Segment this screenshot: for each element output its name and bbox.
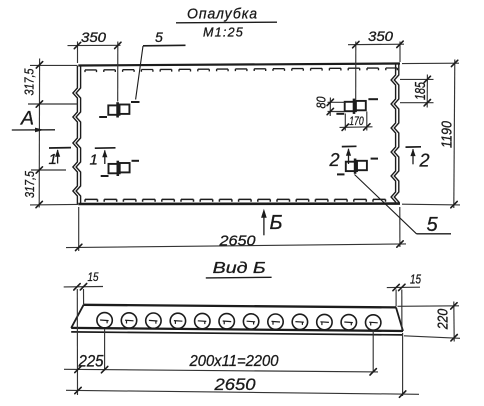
beam bottom lip (71, 332, 403, 335)
dim 80 ext lines (328, 102, 345, 111)
svg-text:80: 80 (314, 96, 329, 109)
svg-text:185: 185 (413, 81, 429, 100)
item row2 left dashes (101, 161, 139, 176)
dim 15 right line (387, 286, 420, 288)
svg-text:5: 5 (427, 214, 439, 236)
svg-text:Вид Б: Вид Б (213, 260, 266, 277)
dim 225 ticks (75, 366, 377, 375)
label 5 top (155, 29, 163, 45)
dim 80 text (314, 96, 329, 109)
dim 15 left ext (77, 289, 83, 395)
dim 15 right ext (396, 290, 403, 397)
embedded item row1 left (108, 102, 129, 117)
plan bottom joint dashes (85, 199, 386, 201)
svg-text:350: 350 (368, 29, 394, 44)
dim 317,5 upper text (22, 68, 37, 96)
section mark 2 left (329, 146, 357, 170)
svg-text:А: А (20, 107, 34, 129)
dim 350 left ticks (74, 42, 121, 49)
beam top edge (84, 305, 396, 308)
dim 317,5 ticks (36, 62, 43, 208)
title Opalubka (187, 6, 258, 23)
dim 200x11 text (189, 353, 279, 370)
scale M1:25 (203, 26, 244, 40)
dim 170 ext lines (345, 112, 367, 131)
dim 220 ext lines (398, 306, 461, 339)
svg-text:2: 2 (329, 150, 340, 170)
svg-text:225: 225 (78, 352, 105, 370)
dim 2650 plan line (66, 244, 406, 248)
dim 317,5 lower text (22, 170, 37, 198)
dim 350 left ext lines (78, 42, 118, 102)
dim 350 right line (348, 43, 404, 46)
dim 2650 plan ticks (76, 241, 404, 251)
dim 220 text (436, 309, 452, 330)
dim 185 ext lines (400, 79, 434, 102)
label 5 top underline (143, 44, 186, 47)
label 5 bottom leader (355, 175, 417, 234)
title Vid B underline (206, 276, 272, 279)
item row2 right dashes (337, 159, 378, 175)
dim 185 line (426, 75, 428, 108)
dim 185 text (413, 81, 429, 100)
dim 15 right text (410, 273, 421, 287)
dim 2650 bottom ticks (75, 387, 406, 397)
dim 170 text (349, 114, 364, 128)
label 5 bottom text (427, 214, 439, 236)
plan top joint dashes (85, 68, 397, 72)
dim 350 left text (81, 30, 107, 45)
beam hole marks (100, 320, 378, 326)
dim 220 ticks (451, 303, 458, 341)
dim 225 ext lines (105, 329, 374, 373)
dim 170 line (340, 126, 373, 129)
svg-text:1: 1 (49, 151, 57, 168)
dim 220 line (453, 302, 455, 342)
dim 2650 bottom line (66, 390, 419, 394)
svg-text:220: 220 (436, 309, 452, 330)
dim 15 left ticks (74, 284, 87, 291)
svg-text:350: 350 (81, 30, 107, 45)
dim 1190 text (439, 120, 456, 148)
svg-text:2650: 2650 (213, 376, 256, 394)
view arrow B (261, 209, 282, 236)
svg-text:15: 15 (410, 273, 421, 287)
label 5 bottom underline (417, 233, 452, 235)
section mark 1 right (90, 148, 116, 169)
dim 317,5 ext lines (28, 65, 78, 205)
dim 317,5 line (38, 59, 40, 208)
dim 2650 bottom text (213, 376, 256, 394)
dim 15 right ticks (393, 284, 405, 291)
svg-text:15: 15 (88, 270, 99, 284)
dim 2650 plan ext lines (79, 207, 400, 251)
dim 80 ticks (327, 99, 333, 115)
embedded item row2 right (346, 159, 367, 174)
dim 225 line (64, 369, 378, 372)
beam left bevel (71, 305, 83, 328)
dim 350 right ext lines (356, 42, 400, 101)
dim 15 left line (64, 286, 103, 288)
svg-text:2650: 2650 (218, 232, 256, 249)
plan top edge (78, 64, 400, 66)
dim 350 left line (68, 44, 121, 46)
item row1 right dashes (336, 99, 378, 114)
embedded item row1 right (345, 99, 366, 114)
dim 15 left text (88, 270, 99, 284)
label 5 top leader (136, 46, 143, 100)
view arrow A letter (20, 107, 34, 129)
dim 170 ticks (342, 124, 370, 131)
beam bottom edge (71, 328, 403, 331)
title Vid B (213, 260, 266, 277)
svg-text:М1:25: М1:25 (203, 26, 244, 40)
section mark 1 left (49, 148, 72, 168)
dim 2650 plan text (218, 232, 256, 249)
item row1 left dashes (99, 102, 139, 117)
svg-text:200х11=2200: 200х11=2200 (189, 353, 279, 370)
svg-text:317,5: 317,5 (22, 170, 37, 198)
plan left break edge (73, 66, 81, 205)
title underline (176, 21, 277, 24)
dim 80 line (329, 98, 331, 117)
embedded item row2 left (109, 161, 130, 176)
beam holes (97, 313, 381, 331)
dim 185 ticks (424, 76, 430, 106)
svg-text:Б: Б (270, 212, 283, 234)
svg-text:1: 1 (90, 152, 98, 169)
view arrow A line (12, 128, 55, 133)
dim 1190 ext lines (402, 63, 460, 205)
plan bottom edge (78, 202, 400, 205)
beam right bevel (396, 307, 403, 331)
dim 1190 ticks (451, 60, 458, 208)
svg-text:170: 170 (349, 114, 364, 128)
dim 350 right text (368, 29, 394, 44)
plan right break edge (391, 64, 399, 204)
svg-text:1190: 1190 (439, 120, 456, 148)
dim 350 right ticks (353, 41, 404, 48)
svg-text:2: 2 (419, 150, 430, 170)
svg-text:317,5: 317,5 (22, 68, 37, 96)
dim 225 text (78, 352, 105, 370)
dim 1190 line (454, 60, 455, 209)
svg-text:5: 5 (155, 29, 163, 45)
svg-text:Опалубка: Опалубка (187, 6, 258, 23)
section mark 2 right (406, 147, 430, 171)
